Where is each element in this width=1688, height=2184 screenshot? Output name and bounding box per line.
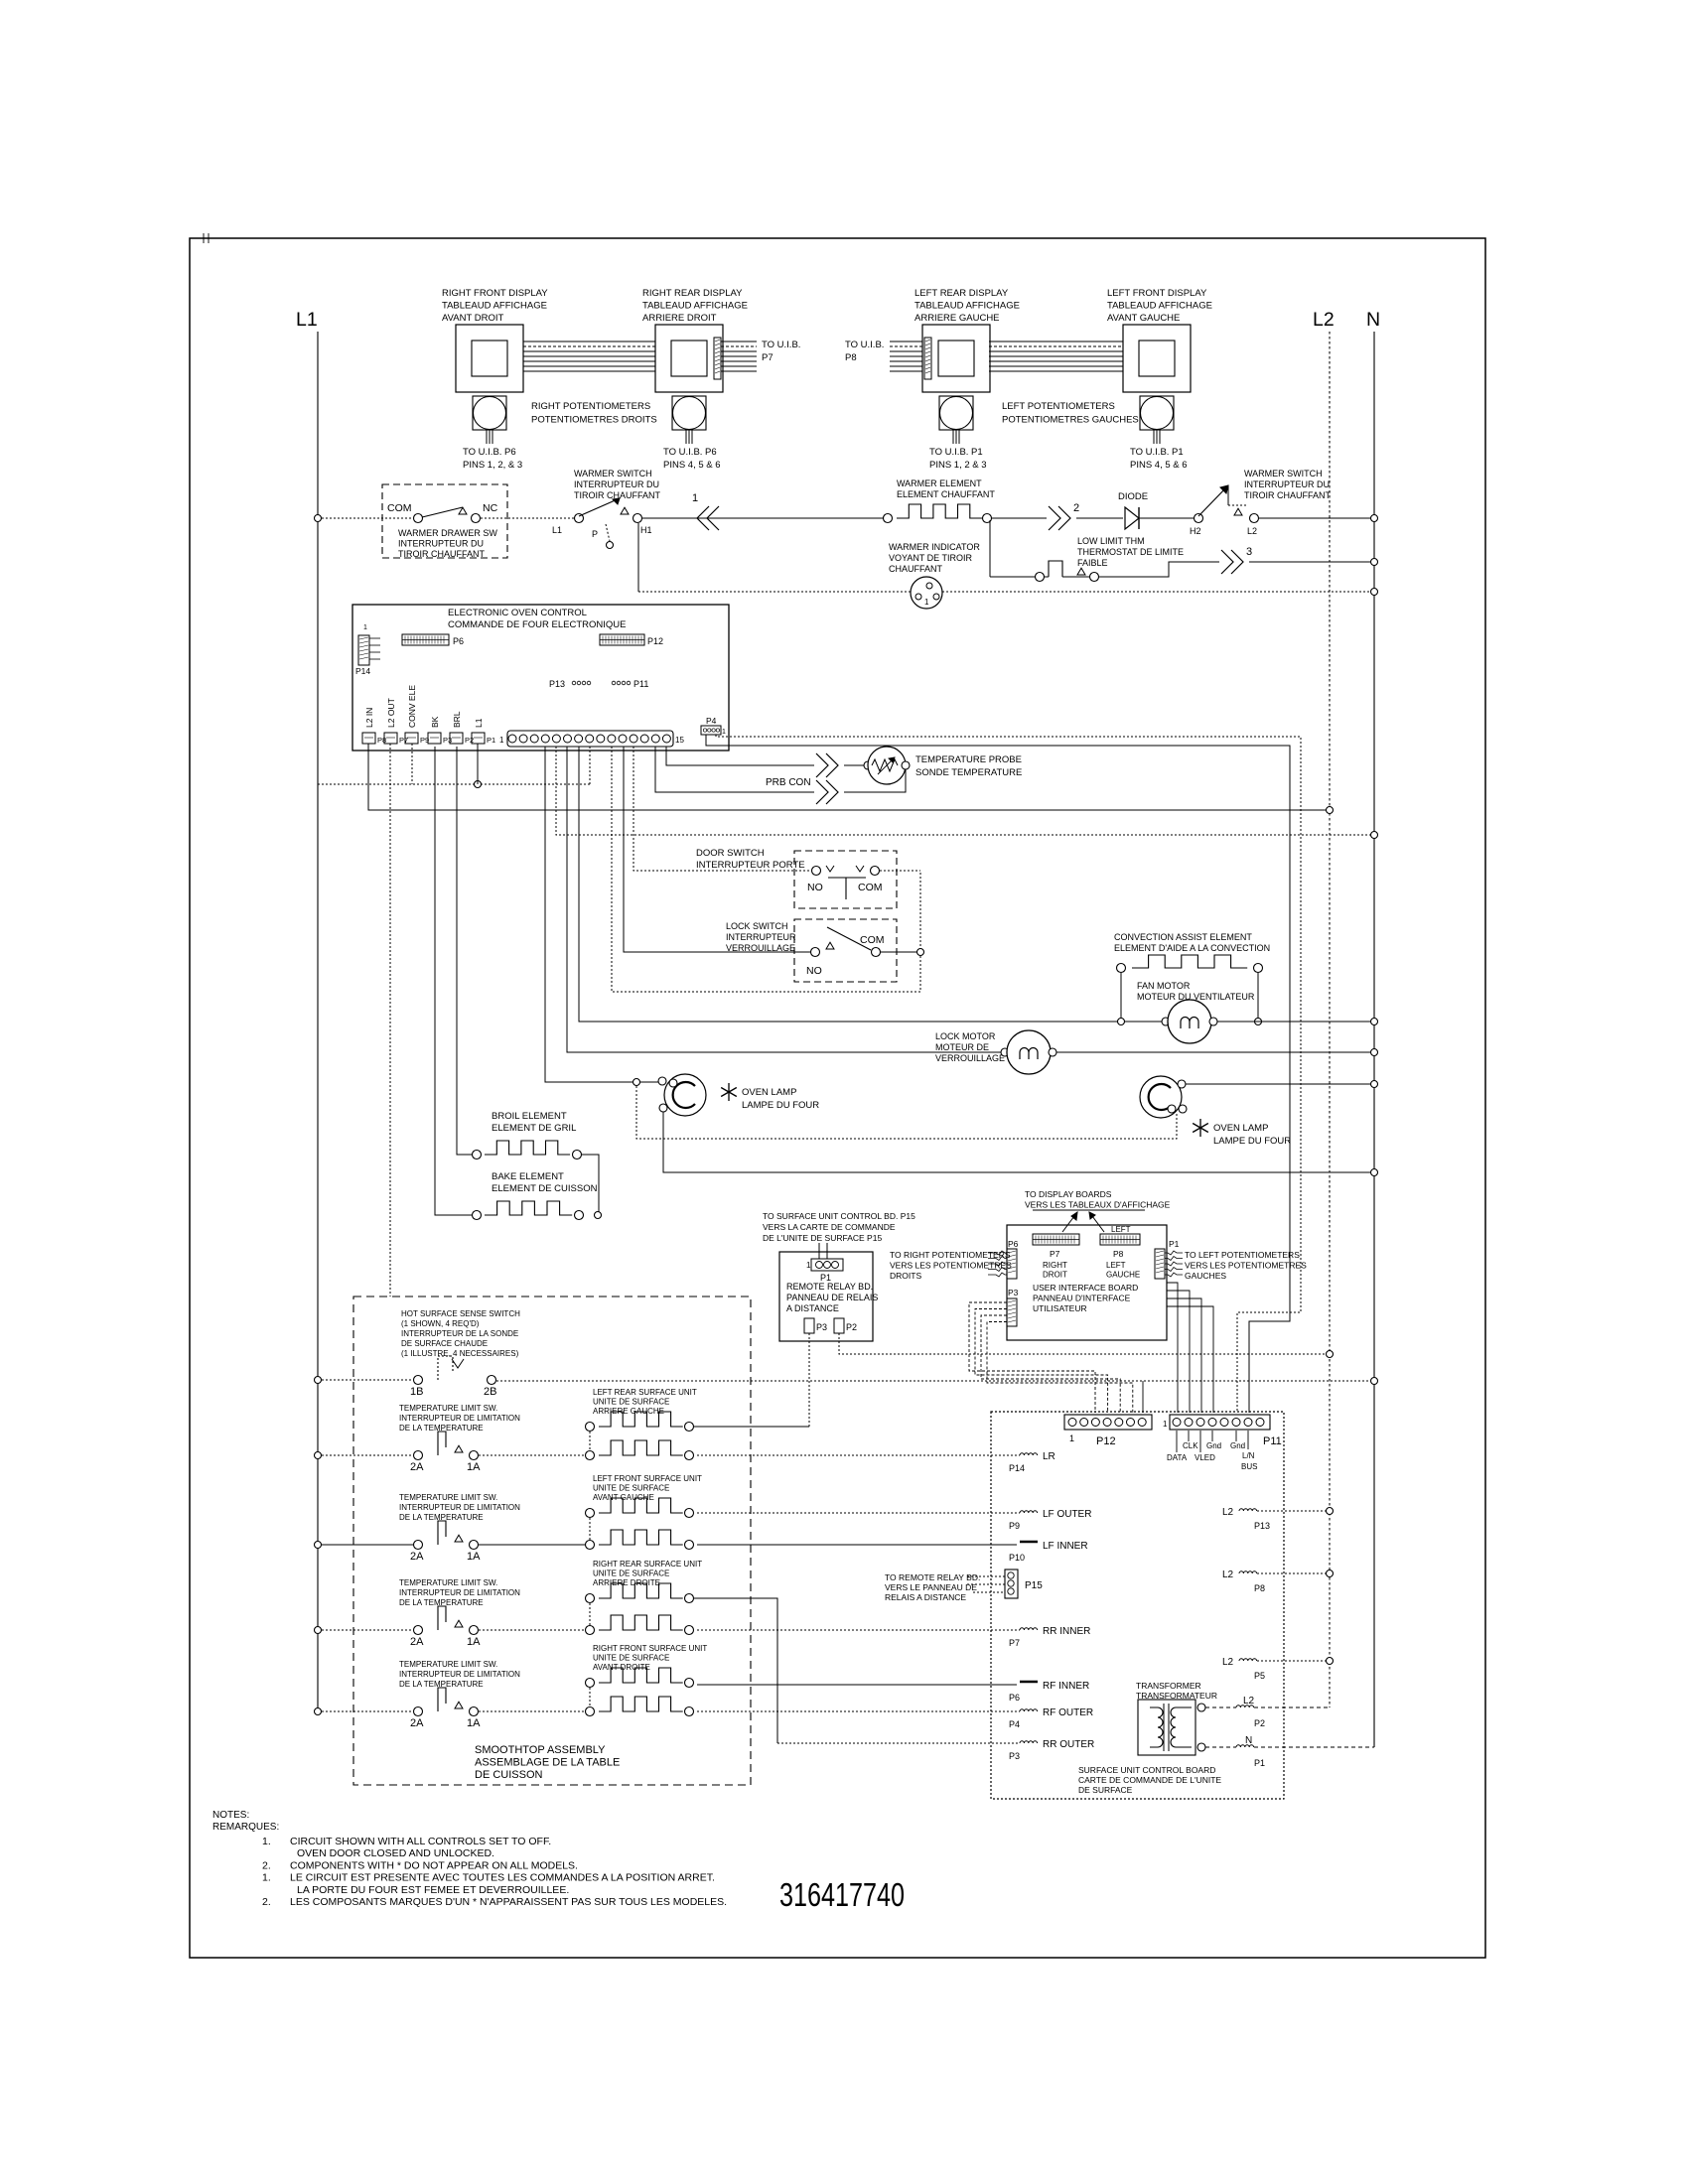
wire L2 terminal to N rail — [1259, 517, 1374, 519]
low limit thermostat — [1036, 536, 1185, 582]
temperature limit switch at 1556 — [315, 1493, 521, 1563]
svg-text:P6: P6 — [453, 636, 464, 646]
svg-text:AVANT DROIT: AVANT DROIT — [442, 313, 503, 324]
wire P4 pin to right rail (solid) — [706, 735, 1290, 1413]
svg-text:1A: 1A — [467, 1551, 481, 1563]
svg-text:DATA: DATA — [1167, 1453, 1188, 1462]
svg-text:RF OUTER: RF OUTER — [1043, 1707, 1093, 1718]
svg-text:REMOTE RELAY BD.: REMOTE RELAY BD. — [786, 1282, 873, 1292]
lock switch — [726, 919, 897, 982]
svg-text:P5: P5 — [1254, 1671, 1265, 1681]
svg-text:VERS LES TABLEAUX D'AFFICHAGE: VERS LES TABLEAUX D'AFFICHAGE — [1025, 1200, 1171, 1210]
connector P12 EOC — [600, 634, 663, 646]
wire NC to warmer switch — [481, 517, 574, 519]
svg-text:INTERRUPTEUR DE LIMITATION: INTERRUPTEUR DE LIMITATION — [399, 1670, 520, 1679]
wire H1 to indicator — [638, 591, 911, 593]
svg-text:REMARQUES:: REMARQUES: — [212, 1822, 279, 1833]
svg-text:2A: 2A — [410, 1636, 424, 1648]
svg-text:DOOR SWITCH: DOOR SWITCH — [696, 848, 765, 859]
svg-text:1.: 1. — [262, 1836, 271, 1847]
connector P9 EOC (CONV ELE) — [405, 685, 429, 745]
svg-text:TEMPERATURE LIMIT SW.: TEMPERATURE LIMIT SW. — [399, 1404, 497, 1413]
svg-text:LF INNER: LF INNER — [1043, 1541, 1088, 1552]
svg-text:P4: P4 — [706, 716, 717, 726]
svg-text:1: 1 — [1069, 1433, 1074, 1443]
svg-text:H2: H2 — [1190, 526, 1201, 536]
svg-text:CIRCUIT SHOWN WITH ALL CONTROL: CIRCUIT SHOWN WITH ALL CONTROLS SET TO O… — [290, 1836, 551, 1847]
oven lamp left — [633, 1074, 820, 1116]
wire element to diode — [992, 517, 1047, 519]
svg-text:LAMPE DU FOUR: LAMPE DU FOUR — [1213, 1136, 1291, 1147]
wire sense row to P12 pin7 — [1142, 1381, 1144, 1413]
svg-text:1B: 1B — [410, 1386, 423, 1398]
svg-text:L2: L2 — [1222, 1570, 1234, 1580]
svg-text:RR OUTER: RR OUTER — [1043, 1739, 1094, 1750]
surface unit LEFT FRONT SURFACE UNIT — [586, 1474, 703, 1550]
labels P11 pins — [1167, 1431, 1257, 1471]
svg-text:LEFT: LEFT — [1106, 1261, 1126, 1270]
svg-text:P4: P4 — [1009, 1719, 1020, 1729]
svg-text:Gnd: Gnd — [1230, 1441, 1245, 1450]
svg-text:2.: 2. — [262, 1859, 271, 1871]
warmer drawer switch box — [382, 484, 507, 559]
svg-text:CLK: CLK — [1183, 1441, 1198, 1450]
wire door COM loop — [880, 870, 920, 872]
wire ribbon to left rear display from UIB P8 — [890, 341, 922, 371]
wire H1 down to indicator row — [637, 523, 639, 592]
svg-text:1A: 1A — [467, 1717, 481, 1729]
wire switch to element — [479, 1710, 585, 1712]
svg-text:NC: NC — [483, 502, 498, 514]
node N rail row 841 — [1371, 832, 1378, 839]
wire element down to thermostat — [989, 520, 991, 577]
transformer — [1136, 1681, 1217, 1755]
svg-text:LA PORTE DU FOUR EST FEMEE ET: LA PORTE DU FOUR EST FEMEE ET DEVERROUIL… — [297, 1884, 569, 1896]
svg-text:P7: P7 — [1050, 1249, 1060, 1259]
svg-text:L2: L2 — [1313, 309, 1335, 331]
svg-text:UNITE DE SURFACE: UNITE DE SURFACE — [593, 1654, 669, 1663]
connector P8 UIB — [1100, 1225, 1140, 1280]
svg-text:TO U.I.B. P6: TO U.I.B. P6 — [463, 447, 516, 458]
wire indicator to N rail — [942, 591, 1374, 593]
wire EOC P7 long drop — [389, 744, 391, 1297]
svg-text:DIODE: DIODE — [1118, 491, 1148, 502]
svg-text:TABLEAUD AFFICHAGE: TABLEAUD AFFICHAGE — [642, 301, 748, 312]
svg-text:P2: P2 — [846, 1322, 857, 1332]
svg-text:LEFT REAR SURFACE UNIT: LEFT REAR SURFACE UNIT — [593, 1388, 697, 1397]
svg-text:LEFT FRONT DISPLAY: LEFT FRONT DISPLAY — [1107, 288, 1207, 299]
svg-text:THERMOSTAT DE LIMITE: THERMOSTAT DE LIMITE — [1077, 547, 1184, 557]
svg-text:2A: 2A — [410, 1551, 424, 1563]
svg-text:OVEN LAMP: OVEN LAMP — [1213, 1123, 1268, 1134]
svg-text:TEMPERATURE PROBE: TEMPERATURE PROBE — [915, 754, 1022, 765]
wire RR top element across and down — [694, 1598, 777, 1743]
svg-text:DROITS: DROITS — [890, 1271, 921, 1281]
svg-text:15: 15 — [675, 736, 684, 745]
svg-text:TO U.I.B.: TO U.I.B. — [762, 340, 800, 350]
svg-text:RELAIS A DISTANCE: RELAIS A DISTANCE — [885, 1592, 966, 1602]
svg-text:ARRIERE GAUCHE: ARRIERE GAUCHE — [914, 313, 1000, 324]
svg-text:ARRIERE DROIT: ARRIERE DROIT — [642, 313, 717, 324]
svg-text:P8: P8 — [1113, 1249, 1124, 1259]
wire ribbon right front to right rear — [523, 341, 655, 371]
svg-text:L2: L2 — [1247, 526, 1257, 536]
node lock/door COM junction — [917, 949, 924, 956]
svg-text:DE CUISSON: DE CUISSON — [475, 1769, 543, 1781]
wire bake feed — [435, 747, 472, 1215]
svg-text:L1: L1 — [552, 525, 562, 535]
connector P1 EOC (L1) — [472, 718, 495, 745]
svg-text:COM: COM — [860, 934, 885, 946]
svg-text:PINS 1, 2 & 3: PINS 1, 2 & 3 — [929, 460, 987, 471]
svg-text:L1: L1 — [296, 309, 318, 331]
wire N rail — [1373, 332, 1375, 1747]
node L2 rail row 816 — [1327, 807, 1334, 814]
svg-text:(1 ILLUSTRE, 4 NECESSAIRES): (1 ILLUSTRE, 4 NECESSAIRES) — [401, 1349, 519, 1358]
svg-text:3: 3 — [1246, 546, 1252, 558]
node N rail warmer row — [1371, 515, 1378, 522]
svg-text:P7: P7 — [1009, 1638, 1020, 1648]
svg-text:A DISTANCE: A DISTANCE — [786, 1303, 839, 1313]
connector P6 — [402, 634, 464, 646]
connector P11 EOC — [612, 679, 648, 689]
electronic oven control box U-EOC — [352, 605, 729, 751]
svg-text:INTERRUPTEUR DE LIMITATION: INTERRUPTEUR DE LIMITATION — [399, 1588, 520, 1597]
svg-text:INTERRUPTEUR DE LA SONDE: INTERRUPTEUR DE LA SONDE — [401, 1329, 518, 1338]
wire P4 pin to right rail (dotted) — [716, 735, 1301, 1413]
wire pin6 to lock motor — [567, 747, 1005, 1052]
smoothtop assembly box — [353, 1297, 751, 1785]
svg-text:1.: 1. — [262, 1872, 271, 1884]
wire lock COM out — [881, 951, 916, 953]
svg-text:P1: P1 — [1254, 1758, 1265, 1768]
svg-text:ELEMENT D'AIDE A LA CONVECTION: ELEMENT D'AIDE A LA CONVECTION — [1114, 943, 1270, 953]
chevron connector 2 — [1049, 506, 1060, 530]
chevron probe top — [816, 753, 828, 777]
surface unit RIGHT FRONT SURFACE UNIT — [586, 1644, 708, 1716]
potentiometer left front — [1130, 396, 1188, 471]
wire element drops to fan line — [1120, 973, 1122, 1022]
svg-text:CONV ELE: CONV ELE — [407, 685, 417, 728]
svg-text:SMOOTHTOP ASSEMBLY: SMOOTHTOP ASSEMBLY — [475, 1744, 606, 1756]
svg-text:VERROUILLAGE: VERROUILLAGE — [726, 943, 795, 953]
svg-text:SURFACE UNIT CONTROL BOARD: SURFACE UNIT CONTROL BOARD — [1078, 1765, 1215, 1775]
svg-text:RIGHT REAR SURFACE UNIT: RIGHT REAR SURFACE UNIT — [593, 1560, 702, 1569]
svg-text:1: 1 — [363, 624, 367, 631]
connector P13 — [549, 679, 591, 689]
svg-text:WARMER INDICATOR: WARMER INDICATOR — [889, 542, 980, 552]
wire pin12 to door switch NO — [633, 747, 811, 871]
wire L2 rail — [1329, 332, 1331, 1707]
wire broil feed — [457, 747, 472, 1155]
svg-text:RIGHT: RIGHT — [1043, 1261, 1067, 1270]
potentiometer left rear — [929, 396, 987, 471]
svg-text:2: 2 — [1073, 502, 1079, 514]
svg-text:P6: P6 — [1008, 1239, 1019, 1249]
svg-text:P1: P1 — [487, 736, 495, 745]
svg-text:COM: COM — [858, 882, 883, 893]
wire warmer switch to warmer element — [642, 517, 888, 519]
svg-text:WARMER SWITCH: WARMER SWITCH — [1244, 469, 1323, 478]
wire ribbon right rear to UIB P7 — [721, 341, 757, 371]
node N rail thermostat row — [1371, 559, 1378, 566]
svg-text:TIROIR CHAUFFANT: TIROIR CHAUFFANT — [1244, 490, 1332, 500]
notes — [212, 1810, 727, 1908]
wire pin4 to oven lamp — [545, 747, 633, 1082]
svg-text:P10: P10 — [1009, 1553, 1025, 1563]
connector P12 SUCB — [1064, 1415, 1152, 1447]
chevron probe bottom — [816, 780, 828, 804]
wire ribbon left rear to left front — [989, 341, 1123, 371]
svg-text:2.: 2. — [262, 1896, 271, 1908]
svg-text:TO U.I.B. P6: TO U.I.B. P6 — [663, 447, 717, 458]
wire LR top element to RRB P3 — [694, 1426, 809, 1428]
wire EOC P8 to L2 rail — [368, 744, 1330, 810]
svg-text:RF INNER: RF INNER — [1043, 1681, 1089, 1692]
svg-text:WARMER DRAWER SW: WARMER DRAWER SW — [398, 528, 497, 538]
surface unit LEFT REAR SURFACE UNIT — [586, 1388, 697, 1460]
svg-text:FAIBLE: FAIBLE — [1077, 558, 1108, 568]
svg-text:TABLEAUD AFFICHAGE: TABLEAUD AFFICHAGE — [442, 301, 547, 312]
svg-text:UNITE DE SURFACE: UNITE DE SURFACE — [593, 1570, 669, 1578]
svg-text:LES COMPOSANTS MARQUES D'UN *: LES COMPOSANTS MARQUES D'UN * N'APPARAIS… — [290, 1896, 727, 1908]
svg-text:ELEMENT DE CUISSON: ELEMENT DE CUISSON — [492, 1183, 598, 1194]
svg-text:TO DISPLAY BOARDS: TO DISPLAY BOARDS — [1025, 1189, 1112, 1199]
convection assist element — [1114, 932, 1270, 973]
svg-text:LAMPE DU FOUR: LAMPE DU FOUR — [742, 1100, 819, 1111]
svg-text:BRL: BRL — [452, 711, 462, 728]
potentiometer right rear — [663, 396, 721, 471]
temperature limit switch at 1466 — [315, 1404, 521, 1473]
temperature limit switch at 1642 — [315, 1578, 521, 1648]
svg-text:316417740: 316417740 — [779, 1876, 905, 1913]
svg-text:1: 1 — [499, 736, 504, 745]
svg-text:NO: NO — [807, 882, 823, 893]
svg-text:P14: P14 — [355, 666, 370, 676]
svg-text:CHAUFFANT: CHAUFFANT — [889, 564, 943, 574]
svg-text:FAN MOTOR: FAN MOTOR — [1137, 981, 1191, 991]
svg-text:MOTEUR DE: MOTEUR DE — [935, 1042, 989, 1052]
border frame — [190, 238, 1485, 1958]
svg-text:INTERRUPTEUR DU: INTERRUPTEUR DU — [1244, 479, 1330, 489]
temperature probe — [864, 747, 1022, 784]
svg-text:UNITE DE SURFACE: UNITE DE SURFACE — [593, 1398, 669, 1407]
display board left front — [1107, 288, 1212, 392]
svg-text:TO U.I.B.: TO U.I.B. — [845, 340, 884, 350]
connector strip P13/P11 pins 1-15 — [499, 731, 684, 747]
node N rail lamp right row — [1371, 1081, 1378, 1088]
svg-text:L2: L2 — [1243, 1696, 1255, 1706]
svg-text:LEFT REAR DISPLAY: LEFT REAR DISPLAY — [914, 288, 1009, 299]
svg-text:TABLEAUD AFFICHAGE: TABLEAUD AFFICHAGE — [1107, 301, 1212, 312]
svg-text:TO U.I.B. P1: TO U.I.B. P1 — [929, 447, 983, 458]
svg-text:UTILISATEUR: UTILISATEUR — [1033, 1303, 1087, 1313]
svg-text:TABLEAUD AFFICHAGE: TABLEAUD AFFICHAGE — [914, 301, 1020, 312]
svg-text:P2: P2 — [1254, 1718, 1265, 1728]
svg-text:P3: P3 — [1008, 1288, 1019, 1297]
connector P8 EOC (L2 IN) — [362, 708, 386, 745]
wire L1 row to EOC P1 — [318, 783, 590, 785]
connector P11 SUCB — [1163, 1415, 1282, 1447]
svg-text:RIGHT REAR DISPLAY: RIGHT REAR DISPLAY — [642, 288, 743, 299]
svg-text:GAUCHES: GAUCHES — [1185, 1271, 1226, 1281]
svg-text:NO: NO — [806, 965, 822, 977]
svg-text:PANNEAU DE RELAIS: PANNEAU DE RELAIS — [786, 1293, 878, 1302]
svg-text:P8: P8 — [1254, 1583, 1265, 1593]
wire fan motor to N rail — [1217, 1021, 1374, 1023]
svg-text:LOCK SWITCH: LOCK SWITCH — [726, 921, 788, 931]
node N rail lock motor row — [1371, 1049, 1378, 1056]
wire L1 rail — [317, 332, 319, 1711]
svg-text:TIROIR CHAUFFANT: TIROIR CHAUFFANT — [398, 549, 486, 559]
svg-text:L2 OUT: L2 OUT — [386, 698, 396, 728]
svg-text:SONDE TEMPERATURE: SONDE TEMPERATURE — [915, 767, 1022, 778]
connector P7 EOC (L2 OUT) — [384, 698, 408, 745]
svg-text:INTERRUPTEUR DU: INTERRUPTEUR DU — [574, 479, 659, 489]
oven lamp right — [1140, 1076, 1291, 1147]
svg-text:GAUCHE: GAUCHE — [1106, 1271, 1140, 1280]
svg-text:VERS LE PANNEAU DE: VERS LE PANNEAU DE — [885, 1582, 977, 1592]
svg-text:P6: P6 — [1009, 1693, 1020, 1703]
node on L1 rail warmer row — [315, 515, 322, 522]
svg-text:TRANSFORMER: TRANSFORMER — [1136, 1681, 1201, 1691]
warmer switch right — [1190, 469, 1332, 536]
svg-text:1: 1 — [924, 598, 929, 607]
wire sense switch to N rail — [496, 1380, 1374, 1382]
svg-text:RIGHT FRONT DISPLAY: RIGHT FRONT DISPLAY — [442, 288, 548, 299]
svg-text:LEFT POTENTIOMETERS: LEFT POTENTIOMETERS — [1002, 401, 1115, 412]
wire pin15 to probe — [666, 747, 814, 765]
svg-text:LE CIRCUIT EST PRESENTE AVEC T: LE CIRCUIT EST PRESENTE AVEC TOUTES LES … — [290, 1872, 715, 1884]
node N rail lamp row — [1371, 1169, 1378, 1176]
label to display boards — [1025, 1189, 1171, 1210]
svg-text:ARRIERE DROITE: ARRIERE DROITE — [593, 1578, 660, 1587]
temperature limit switch at 1724 — [315, 1660, 521, 1729]
svg-text:RIGHT POTENTIOMETERS: RIGHT POTENTIOMETERS — [531, 401, 650, 412]
wire lamp left dotted link — [636, 1086, 1177, 1139]
svg-text:OVEN LAMP: OVEN LAMP — [742, 1087, 796, 1098]
user interface board U-UIB — [1007, 1225, 1167, 1340]
svg-text:WARMER ELEMENT: WARMER ELEMENT — [897, 478, 982, 488]
node N rail fan row — [1371, 1019, 1378, 1025]
svg-text:UNITE DE SURFACE: UNITE DE SURFACE — [593, 1484, 669, 1493]
svg-text:RR INNER: RR INNER — [1043, 1626, 1090, 1637]
svg-text:TO REMOTE RELAY BD.: TO REMOTE RELAY BD. — [885, 1572, 980, 1582]
diode — [1118, 491, 1148, 529]
svg-text:PRB CON: PRB CON — [766, 777, 811, 788]
svg-text:PANNEAU D'INTERFACE: PANNEAU D'INTERFACE — [1033, 1294, 1131, 1303]
svg-text:P3: P3 — [1009, 1751, 1020, 1761]
wire RRB P3 to LR top element — [808, 1333, 810, 1427]
svg-text:P11: P11 — [633, 679, 648, 689]
node L2 rail row 1364 — [1327, 1351, 1334, 1358]
display board left rear — [914, 288, 1020, 392]
svg-text:ELEMENT CHAUFFANT: ELEMENT CHAUFFANT — [897, 489, 995, 499]
svg-text:LEFT: LEFT — [1111, 1225, 1131, 1234]
wire EOC P1 drop — [477, 744, 479, 784]
svg-text:CARTE DE COMMANDE DE L'UNITE: CARTE DE COMMANDE DE L'UNITE — [1078, 1775, 1221, 1785]
svg-text:INTERRUPTEUR DU: INTERRUPTEUR DU — [398, 539, 484, 549]
chevron connector 1 — [692, 492, 719, 530]
svg-text:P12: P12 — [1096, 1435, 1116, 1447]
svg-text:CONVECTION ASSIST ELEMENT: CONVECTION ASSIST ELEMENT — [1114, 932, 1252, 942]
svg-text:P3: P3 — [816, 1322, 827, 1332]
svg-text:INTERRUPTEUR DE LIMITATION: INTERRUPTEUR DE LIMITATION — [399, 1414, 520, 1423]
svg-text:P13: P13 — [549, 679, 565, 689]
wire switch to element — [479, 1544, 585, 1546]
node EOC P1 junction — [475, 781, 482, 788]
svg-text:P12: P12 — [647, 636, 663, 646]
svg-text:P7: P7 — [762, 352, 774, 363]
svg-text:(1 SHOWN, 4 REQ'D): (1 SHOWN, 4 REQ'D) — [401, 1319, 480, 1328]
warmer indicator lamp — [889, 542, 980, 609]
svg-text:INTERRUPTEUR PORTE: INTERRUPTEUR PORTE — [696, 860, 805, 871]
svg-text:LOCK MOTOR: LOCK MOTOR — [935, 1031, 996, 1041]
wire L1 to warmer drawer switch COM — [322, 517, 413, 519]
wire pin5 to N rail — [556, 747, 1374, 835]
svg-text:LF OUTER: LF OUTER — [1043, 1509, 1091, 1520]
svg-text:VERS LA CARTE DE COMMANDE: VERS LA CARTE DE COMMANDE — [763, 1222, 896, 1232]
connector P6 UIB — [988, 1239, 1019, 1279]
fan motor — [1137, 981, 1255, 1043]
svg-text:2A: 2A — [410, 1717, 424, 1729]
svg-text:Gnd: Gnd — [1206, 1441, 1221, 1450]
svg-text:PINS 4, 5 & 6: PINS 4, 5 & 6 — [663, 460, 721, 471]
svg-text:TEMPERATURE LIMIT SW.: TEMPERATURE LIMIT SW. — [399, 1493, 497, 1502]
svg-text:TO RIGHT POTENTIOMETERS: TO RIGHT POTENTIOMETERS — [890, 1250, 1011, 1260]
wire input LF INNER — [697, 1544, 1017, 1546]
wire UIB P3 to P12 pins — [969, 1302, 1133, 1413]
svg-text:BUS: BUS — [1241, 1462, 1257, 1471]
svg-text:H1: H1 — [640, 525, 652, 535]
svg-text:BK: BK — [430, 716, 440, 728]
svg-text:DE SURFACE CHAUDE: DE SURFACE CHAUDE — [401, 1339, 488, 1348]
arrows to display boards label — [1062, 1212, 1077, 1232]
svg-text:1: 1 — [806, 1261, 811, 1270]
svg-text:VERS LES POTENTIOMETRES: VERS LES POTENTIOMETRES — [1185, 1261, 1307, 1271]
connector P3 EOC (BK) — [428, 716, 452, 745]
lock motor — [935, 1030, 1056, 1074]
svg-text:DE SURFACE: DE SURFACE — [1078, 1785, 1133, 1795]
svg-text:TO U.I.B. P1: TO U.I.B. P1 — [1130, 447, 1184, 458]
svg-text:PINS 4, 5 & 6: PINS 4, 5 & 6 — [1130, 460, 1188, 471]
wire input RF INNER — [697, 1684, 1017, 1686]
svg-text:USER INTERFACE BOARD: USER INTERFACE BOARD — [1033, 1283, 1138, 1293]
surface unit control board U-SUCB — [991, 1412, 1284, 1799]
svg-text:VERS LES POTENTIOMETRES: VERS LES POTENTIOMETRES — [890, 1261, 1012, 1271]
remote relay board U-RRB — [779, 1252, 878, 1341]
svg-text:L2 IN: L2 IN — [364, 708, 374, 728]
svg-text:ELECTRONIC OVEN CONTROL: ELECTRONIC OVEN CONTROL — [448, 608, 587, 618]
svg-text:1A: 1A — [467, 1636, 481, 1648]
connector P14 — [355, 624, 380, 676]
wire pin11 to lock switch NO — [624, 747, 810, 952]
node N rail sense row — [1371, 1378, 1378, 1385]
svg-text:PINS 1, 2, & 3: PINS 1, 2, & 3 — [463, 460, 522, 471]
wire RRB P2 to L2 rail — [839, 1333, 1330, 1354]
wire lamp left to N rail — [663, 1112, 1374, 1172]
svg-text:POTENTIOMETRES DROITS: POTENTIOMETRES DROITS — [531, 415, 657, 426]
wire broil to bake junction — [582, 1155, 599, 1215]
connector bar on left rear display — [924, 338, 931, 379]
svg-text:OVEN DOOR CLOSED AND UNLOCKED.: OVEN DOOR CLOSED AND UNLOCKED. — [297, 1847, 494, 1859]
wire riser pin8 — [589, 747, 591, 784]
wire diode to H2 — [1139, 517, 1194, 519]
svg-text:1: 1 — [692, 492, 698, 504]
bake element — [473, 1171, 598, 1220]
wire switch to element — [479, 1629, 585, 1631]
svg-text:P8: P8 — [845, 352, 857, 363]
